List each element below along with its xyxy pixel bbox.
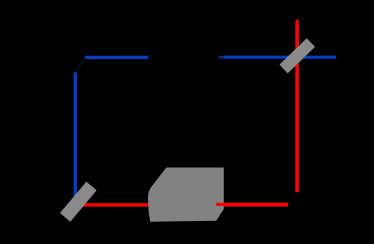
valve V2 (bottom-left, 45deg bar) (60, 182, 97, 222)
wire: faint red corner diagonal (bottom-right) (288, 194, 297, 205)
wire: blue supply top-left segment (85, 56, 148, 59)
wire: blue supply top-right segment (224, 56, 336, 59)
wire: blue supply left vertical segment (74, 72, 77, 198)
valve V1 (top-right, 45deg bar) (279, 38, 315, 73)
wire: red return bottom segment (behind pump) (80, 203, 288, 206)
wire: dark blue lead-in dash (218, 56, 223, 59)
wire: red return right vertical segment (295, 21, 299, 192)
wire: red return bottom overlay (over pump outlet corner) (216, 203, 288, 206)
pump P1 body (148, 168, 224, 222)
wire: red vertical pointed tip (295, 19, 299, 21)
wire: faint blue corner diagonal (top-left) (75, 59, 84, 73)
